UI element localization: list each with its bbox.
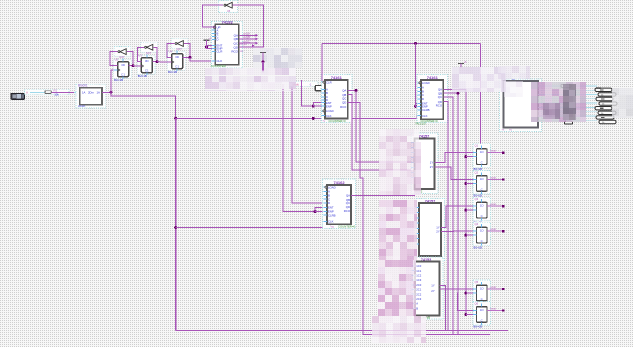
wire U7 QB bus [443, 93, 458, 334]
block B1 inner pin labels [82, 91, 100, 95]
svg-text:74162: 74162 [333, 180, 345, 185]
junction bottom branch [174, 226, 177, 229]
inverter U5 selection [219, 1, 238, 13]
svg-text:C: C [481, 318, 483, 322]
net label RCO [240, 49, 243, 53]
svg-text:1D: 1D [480, 204, 484, 208]
junction U7 QB [457, 92, 460, 95]
resistor network label [596, 87, 601, 90]
censor blur vertical stripe upper [379, 142, 421, 195]
net label QD [240, 42, 255, 47]
svg-text:+xout: +xout [490, 148, 497, 152]
wire Q2 input [466, 183, 473, 185]
censor blur display top-left [504, 81, 523, 97]
svg-text:COUNTER=0: COUNTER=0 [338, 224, 355, 228]
svg-text:1A: 1A [97, 91, 101, 95]
svg-text:1Y: 1Y [431, 284, 435, 288]
counter U8 title [333, 180, 345, 185]
transistor Q3 label [475, 197, 479, 201]
inverter above U4 selection [171, 38, 187, 48]
net label QA [243, 32, 258, 37]
mux U10 selection [417, 199, 445, 261]
wire bottom bus 2 [363, 334, 490, 336]
power label near display [464, 61, 467, 64]
svg-text:ENP: ENP [326, 104, 332, 108]
wire U9 2Y to Q2 [435, 167, 477, 180]
junction U6 enable [312, 105, 315, 108]
svg-text:BU=1B: BU=1B [474, 245, 483, 249]
wire Q5 output [487, 288, 503, 290]
junction FF1 Q [132, 64, 135, 67]
svg-text:C: C [481, 160, 483, 164]
display D1 [504, 81, 539, 127]
transistor Q4 caption [474, 245, 483, 249]
svg-text:NOT: NOT [177, 48, 183, 51]
wire U10 2Y to Q4 [441, 230, 477, 232]
transistor Q5 [473, 282, 487, 304]
svg-text:C: C [481, 239, 483, 243]
wire net vertical 1 [283, 84, 315, 212]
mux U9 selection [412, 133, 439, 194]
wire Q4 output [487, 230, 503, 232]
svg-text:1A: 1A [82, 91, 86, 95]
wire to U7 ENT [416, 103, 418, 106]
junction U8 enable [314, 210, 317, 213]
transistor Q2 [473, 172, 487, 194]
transistor Q4 selection [473, 222, 491, 246]
wire Q1 input [466, 156, 473, 158]
transistor Q6 caption [474, 325, 483, 329]
inverter above U3 selection [141, 42, 157, 52]
transistor Q5 caption [474, 303, 483, 307]
mux U11 caption [418, 316, 430, 320]
green label left of U11 title [407, 252, 413, 256]
counter U8 74162 [324, 185, 352, 224]
wire Q3 input [466, 209, 473, 211]
wire U11 1Y down [440, 286, 446, 331]
svg-text:RCO: RCO [344, 209, 351, 213]
wire FF3 feedback loop [167, 44, 175, 58]
wire SW1 to U6 pin [326, 81, 331, 87]
svg-text:C1: C1 [175, 65, 179, 69]
green label above U9 [415, 122, 427, 126]
counter U1 74193 [212, 24, 239, 64]
svg-text:A: A [26, 91, 28, 95]
svg-text:+xout: +xout [490, 306, 497, 310]
label R1 value [54, 89, 60, 97]
svg-text:CLRB: CLRB [422, 108, 430, 112]
svg-text:RN1: RN1 [596, 87, 601, 90]
flip-flop U2 label [115, 58, 119, 62]
transistor Q1 selection [473, 144, 491, 168]
inverter U5 feedback [224, 2, 232, 8]
svg-text:RCO: RCO [340, 105, 347, 109]
wire trunk vertical left [175, 118, 177, 330]
wire FF1 Q to FF2 CLK [133, 65, 141, 67]
svg-text:74161: 74161 [427, 75, 439, 80]
wire power stub down overlay [262, 62, 264, 71]
censor blur dark column [563, 84, 576, 120]
junction U1 enable [205, 46, 208, 49]
svg-text:74161: 74161 [331, 75, 343, 80]
flip-flop U4 label [169, 50, 173, 54]
svg-text:2Dm: 2Dm [88, 91, 95, 95]
svg-text:CLK: CLK [326, 114, 332, 118]
svg-text:2C2: 2C2 [416, 292, 421, 296]
transistor Q1 [473, 145, 487, 167]
selected wire band (clock net) [25, 90, 70, 95]
svg-text:1D: 1D [480, 308, 484, 312]
wire Q5 input [466, 292, 473, 294]
svg-text:COUNTER: COUNTER [211, 64, 227, 68]
power symbol right of U1 overlay [260, 53, 266, 62]
transistor Q2 label [475, 171, 479, 175]
wire Q1 output [487, 152, 503, 154]
junction Q5 input [464, 292, 467, 295]
transistor Q5 label [475, 280, 479, 284]
inverter above U2 [118, 49, 126, 55]
resistor R2 top [561, 84, 571, 87]
mux U9 74157 [411, 139, 435, 190]
wire Q6 output [487, 310, 503, 312]
censor blur dark patch [543, 103, 560, 119]
svg-text:BU=1B: BU=1B [114, 78, 123, 82]
svg-text:2C1: 2C1 [416, 288, 421, 292]
power symbol right of U1 [260, 53, 266, 62]
junction U7 enable [414, 105, 417, 108]
junction Q3 input [464, 209, 467, 212]
svg-text:D: D [422, 97, 424, 101]
inverter U3 label [146, 52, 152, 55]
flip-flop U2 caption [114, 78, 123, 82]
svg-text:+xout: +xout [490, 227, 497, 231]
svg-text:1C1: 1C1 [416, 269, 421, 273]
subcircuit block B1 [80, 88, 102, 105]
censor blur vertical stripe mid [379, 200, 417, 260]
wire U6 QA out [348, 90, 411, 162]
svg-text:RCO: RCO [436, 104, 443, 108]
svg-text:1D: 1D [480, 229, 484, 233]
transistor Q1 caption [474, 167, 483, 171]
svg-text:1D: 1D [480, 150, 484, 154]
wire top distribution down right [480, 43, 482, 145]
wire to U6 ENT [313, 103, 321, 107]
mux U11 title [421, 258, 432, 262]
counter U8 caption [330, 224, 355, 228]
transistor Q4 label [475, 222, 479, 226]
transistor Q3 selection [473, 197, 491, 221]
mux U9 title [419, 135, 430, 139]
svg-text:NOT: NOT [146, 52, 152, 55]
wire block B1 output [102, 91, 111, 93]
net label Q4 output [490, 227, 505, 232]
svg-text:C1: C1 [121, 73, 125, 77]
wire node A to R1 [30, 91, 45, 93]
inverter U5 selection marks [227, 10, 231, 13]
selected band multi [289, 82, 318, 86]
resistor R3 bottom [565, 121, 573, 124]
wire U1 QA out [239, 34, 256, 36]
counter U6 caption [323, 119, 346, 123]
svg-text:+xout: +xout [490, 285, 497, 289]
svg-text:A: A [416, 302, 418, 306]
display segment wires [538, 86, 597, 120]
censor blur stripe bottom blob [372, 316, 426, 343]
wire FF2 Q to FF3 CLK [157, 61, 172, 63]
svg-text:oC: oC [240, 49, 243, 53]
svg-text:Q1: Q1 [475, 144, 479, 148]
counter U6 74161 [322, 80, 348, 119]
mux U11 selection [412, 257, 443, 319]
wire U1 QD to inverter U5 [233, 5, 264, 47]
svg-text:CLRB: CLRB [328, 213, 336, 217]
wire U1 QB out [239, 38, 256, 40]
svg-text:ACLK: ACLK [78, 104, 85, 108]
wire U1 load loop left [203, 5, 224, 27]
transistor Q3 caption [474, 220, 483, 224]
counter U8 selection [323, 179, 356, 229]
wire FF1 Q to inverter1 [127, 52, 133, 66]
svg-text:2Y: 2Y [430, 165, 434, 169]
svg-text:CLK: CLK [216, 59, 222, 63]
svg-text:1C2: 1C2 [416, 274, 421, 278]
net label QB [243, 35, 258, 40]
counter U7 selection [417, 75, 448, 123]
inverter above U2 selection [114, 47, 130, 57]
wire Q3 output [487, 205, 503, 207]
svg-text:BU=1B: BU=1B [138, 74, 147, 78]
inverter U4 label [177, 48, 183, 51]
svg-text:2Y: 2Y [436, 230, 440, 234]
svg-text:1D: 1D [480, 177, 484, 181]
svg-text:1Y: 1Y [430, 161, 434, 165]
wire to U1 ENT [207, 45, 212, 47]
svg-text:*xy: *xy [330, 224, 334, 228]
wire to U1 ENP [207, 47, 212, 48]
wire Q4 input [466, 234, 473, 236]
svg-text:CLK: CLK [328, 220, 334, 224]
svg-text:RCO: RCO [231, 49, 238, 53]
wire FF3 Q to inverter3 [183, 44, 190, 58]
transistor Q6 label [475, 302, 479, 306]
flip-flop U4 [168, 50, 186, 71]
mux U11 74153 [412, 262, 440, 316]
wire U7 QD bus [443, 102, 448, 331]
transistor Q2 caption [474, 194, 483, 198]
mux U10 caption [417, 257, 425, 261]
wire top to U7 enables [415, 43, 417, 106]
svg-text:LOAD: LOAD [422, 81, 430, 85]
junction Q4 input [464, 234, 467, 237]
svg-text:B: B [416, 306, 418, 310]
power symbol near U1 [204, 40, 210, 47]
transistor Q4 [473, 224, 487, 246]
flip-flop U3 label [138, 54, 142, 58]
svg-text:2Y: 2Y [431, 289, 435, 293]
transistor Q6 [473, 303, 487, 325]
wire bottom bus extension [446, 330, 508, 332]
inverter U2 label [119, 56, 125, 59]
censor blur vertical stripe low [378, 260, 416, 316]
wire U10 1Y to Q3 [441, 206, 477, 227]
svg-text:1C0: 1C0 [416, 264, 421, 268]
svg-text:Q6: Q6 [475, 302, 479, 306]
net label Q5 output [490, 285, 505, 290]
counter U1 selection [212, 22, 243, 69]
censor blur vertical stripe top [379, 129, 419, 142]
wire net vertical 2 [292, 84, 324, 203]
svg-text:C: C [481, 214, 483, 218]
wire U1 QC out [239, 42, 256, 44]
svg-text:Q4: Q4 [475, 222, 479, 226]
junction below power [262, 60, 265, 63]
junction clock node [110, 91, 113, 94]
power label near U1 [209, 37, 212, 40]
inverter above U4 [175, 41, 183, 47]
net label QC [243, 39, 258, 44]
wire to U8 ENP [315, 211, 324, 213]
wire R1 to block [51, 91, 79, 93]
svg-text:QC: QC [438, 95, 442, 99]
censor blur right of U1 [253, 48, 302, 68]
wire Q2 output [487, 179, 503, 181]
svg-text:10k: 10k [54, 92, 59, 96]
svg-text:BU=1B: BU=1B [168, 70, 177, 74]
svg-text:1D: 1D [480, 287, 484, 291]
wire clock to FF1 CLK [111, 70, 118, 92]
wire U7 QA bus [443, 89, 465, 314]
svg-text:COUNTER=0: COUNTER=0 [329, 119, 346, 123]
net label Q1 output [490, 148, 505, 153]
svg-text:74LS157: 74LS157 [415, 122, 427, 126]
wire trunk into U7 CLK [417, 116, 421, 119]
wire FF1 feedback loop [110, 52, 118, 66]
svg-text:+xout: +xout [490, 175, 497, 179]
censor blur far right [612, 88, 633, 118]
wire U6 CLR up [321, 43, 323, 81]
junction U6 QA [355, 89, 358, 92]
svg-text:C: C [481, 187, 483, 191]
wire U7 QC bus [443, 97, 453, 335]
svg-text:LOAD: LOAD [326, 109, 334, 113]
wire U8 QA out [351, 194, 415, 196]
censor blur above display [452, 67, 506, 92]
label Block1 [78, 83, 88, 87]
svg-text:CLR: CLR [326, 80, 332, 84]
svg-text:C: C [481, 297, 483, 301]
counter U6 selection [322, 75, 353, 123]
mux U10 74157 [416, 203, 442, 256]
wire to U8 ENT [315, 208, 324, 212]
svg-text:2C3: 2C3 [416, 297, 421, 301]
svg-text:Q5: Q5 [475, 280, 479, 284]
wire U9 1Y to Q1 [435, 153, 477, 163]
junction trunk corner [174, 117, 177, 120]
wire multi down [301, 80, 313, 106]
transistor Q3 [473, 199, 487, 221]
svg-text:+xout: +xout [490, 202, 497, 206]
switch SW1 [315, 86, 328, 91]
counter U1 caption [211, 64, 227, 68]
junction Q2 input [464, 182, 467, 185]
flip-flop U2 selection [114, 60, 132, 78]
wire FF2 feedback loop [138, 47, 144, 61]
junction at U6 branch [312, 117, 315, 120]
wire trunk horizontal [176, 117, 417, 119]
flip-flop U3 caption [138, 74, 147, 78]
transistor Q5 selection [473, 280, 491, 304]
label multi [293, 82, 312, 86]
display D1 top label [512, 78, 515, 82]
transistor Q2 selection [473, 171, 491, 195]
inverter above U3 [145, 44, 153, 50]
block B1 bottom label [78, 104, 85, 108]
junction FF3 Q [189, 56, 192, 59]
wire FF2 Q to inverter2 [152, 47, 157, 61]
svg-text:Block1: Block1 [78, 83, 88, 87]
svg-text:NOT: NOT [119, 56, 125, 59]
counter U7 caption [421, 119, 438, 123]
counter U6 title [331, 75, 343, 80]
junction Q6 input [464, 313, 467, 316]
node A label [26, 91, 28, 95]
wire to U7 ENP [416, 105, 418, 107]
svg-text:2C0: 2C0 [416, 283, 421, 287]
wire clock trunk down [111, 92, 176, 118]
power symbol near display [458, 64, 464, 68]
censor blur above display right [498, 66, 530, 79]
wire to U6 ENP [313, 105, 321, 107]
svg-text:oxQD: oxQD [240, 42, 247, 46]
counter U7 74161 [418, 80, 444, 119]
svg-text:1C3: 1C3 [416, 278, 421, 282]
wire to U8 CLK [176, 221, 327, 227]
junction FF2 Q [156, 60, 159, 63]
censor blur right of display [531, 82, 586, 122]
svg-text:Q3: Q3 [475, 197, 479, 201]
mux U9 caption [415, 190, 423, 194]
counter U1 title [221, 19, 233, 24]
crystal oscillator X1 [11, 93, 25, 99]
svg-text:C1: C1 [145, 69, 149, 73]
net label Q2 output [490, 175, 505, 180]
net label Q3 output [490, 202, 505, 207]
wire FF3 Q to U1 CLK [190, 57, 215, 61]
power label right of U1 [266, 50, 269, 53]
svg-text:CLK: CLK [422, 114, 428, 118]
wire to Q6 [458, 293, 477, 311]
transistor Q1 label [475, 144, 479, 148]
counter U7 title [427, 75, 439, 80]
junction top distribution [414, 42, 417, 45]
flip-flop U4 caption [168, 70, 177, 74]
svg-text:CLR: CLR [216, 50, 223, 54]
wire Q6 input [466, 314, 473, 316]
display D1 selection [500, 79, 542, 132]
junction below power overlay [262, 60, 265, 63]
wire top distribution [322, 42, 480, 44]
wire U6 QB out [348, 95, 411, 170]
flip-flop U3 selection [137, 56, 155, 74]
flip-flop U4 selection [168, 52, 186, 70]
svg-text:QD: QD [342, 101, 346, 105]
transistor Q6 selection [473, 302, 491, 326]
wire U11 2Y to Q5 [440, 288, 477, 290]
resistor network RN1 [595, 88, 617, 124]
wire power stub down [262, 62, 264, 73]
censor blur under U1 [205, 68, 296, 91]
svg-text:BU=1B: BU=1B [474, 325, 483, 329]
